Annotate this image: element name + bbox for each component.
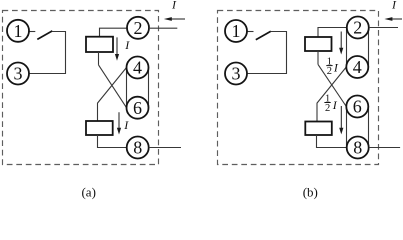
wire: winding B bottom to circle 8 (b) <box>317 135 347 148</box>
wire: circle1 to switch stub (b) <box>247 31 254 33</box>
terminal circle 2 (a) <box>127 17 149 39</box>
series link left: circle4 to circle6 (a) <box>126 68 128 108</box>
terminal circle 1 (a) <box>7 20 29 42</box>
winding box A (b) <box>305 37 332 51</box>
wire diagonal: circle 4 to winding B (b) <box>317 67 346 122</box>
winding box A (a) <box>86 37 113 52</box>
parallel link right: circle6 to circle8 (b) <box>368 107 370 148</box>
wire: winding A top to circle 2 (b) <box>318 28 347 38</box>
terminal circle 4 (a) <box>127 57 149 79</box>
terminal circle 2 (b) <box>347 17 369 39</box>
svg-text:8: 8 <box>133 138 142 158</box>
svg-text:3: 3 <box>14 64 23 84</box>
current arrow I through winding B (a) <box>118 112 120 129</box>
svg-text:2: 2 <box>134 18 143 38</box>
svg-text:I: I <box>123 118 129 132</box>
svg-text:1: 1 <box>232 21 241 41</box>
terminal circle 6 (b) <box>346 96 368 118</box>
svg-text:3: 3 <box>232 64 241 84</box>
current arrow 1/2 I link 2-4 (b) <box>340 32 342 50</box>
switch blade S (a) <box>37 31 52 40</box>
svg-text:I: I <box>333 61 339 75</box>
wire diagonal: winding A to circle 6 (a) <box>99 65 127 108</box>
current arrow I through winding A (a) <box>116 37 118 55</box>
series link right: circle4 to circle6 (a) <box>148 68 150 108</box>
fraction 1/2 label lower (b) <box>324 93 337 114</box>
wire diagonal: winding A to circle 6 (b) <box>318 64 346 106</box>
wire diagonal: circle 4 to winding B (a) <box>98 68 127 122</box>
parallel link left: circle6 to circle8 (b) <box>346 107 348 148</box>
svg-text:I: I <box>171 0 177 11</box>
svg-text:1: 1 <box>14 21 23 41</box>
terminal circle 6 (a) <box>127 97 149 119</box>
wire: circle 2 to external (a) <box>149 27 177 29</box>
svg-text:6: 6 <box>353 97 362 117</box>
svg-text:6: 6 <box>133 98 142 118</box>
wire: winding A bottom stub (b) <box>317 51 319 64</box>
terminal circle 8 (b) <box>347 137 369 159</box>
dashed enclosure (a) <box>3 11 159 165</box>
svg-text:I: I <box>124 38 130 52</box>
winding box B (a) <box>86 121 113 135</box>
wire: switch to corner (b) <box>247 32 287 74</box>
svg-text:8: 8 <box>353 138 362 158</box>
wire: circle1 to switch stub (a) <box>29 31 36 33</box>
wire: circle 8 to external (b) <box>369 147 400 149</box>
switch blade S (b) <box>256 31 271 40</box>
dashed enclosure (b) <box>218 11 379 165</box>
wire: winding B bottom to circle 8 (a) <box>98 135 127 148</box>
svg-text:4: 4 <box>133 58 142 78</box>
fraction 1/2 label upper (b) <box>326 57 339 78</box>
svg-text:2: 2 <box>353 18 362 38</box>
current arrow 1/2 I link 6-8 (b) <box>340 106 342 130</box>
wire: circle 2 to external (b) <box>369 27 398 29</box>
terminal circle 4 (b) <box>346 56 368 78</box>
svg-text:4: 4 <box>353 57 362 77</box>
current arrow I into terminal 2 (b) <box>390 18 402 20</box>
svg-text:I: I <box>332 98 338 112</box>
svg-text:(a): (a) <box>81 185 95 200</box>
svg-text:2: 2 <box>327 66 332 77</box>
terminal circle 3 (b) <box>225 63 247 85</box>
wire: winding A top to circle 2 (a) <box>100 28 128 37</box>
wire: winding A bottom stub (a) <box>98 52 100 65</box>
terminal circle 8 (a) <box>127 137 149 159</box>
terminal circle 1 (b) <box>225 20 247 42</box>
winding box B (b) <box>305 122 332 136</box>
svg-text:(b): (b) <box>303 185 318 200</box>
current arrow I into terminal 2 (a) <box>170 18 185 20</box>
wire: circle 8 to external (a) <box>149 147 181 149</box>
wire: switch to corner (a) <box>29 32 66 74</box>
svg-text:2: 2 <box>325 103 330 114</box>
svg-text:I: I <box>391 0 397 11</box>
parallel link left: circle2 to circle4 (b) <box>346 28 348 68</box>
parallel link right: circle2 to circle4 (b) <box>368 28 370 68</box>
terminal circle 3 (a) <box>7 63 29 85</box>
